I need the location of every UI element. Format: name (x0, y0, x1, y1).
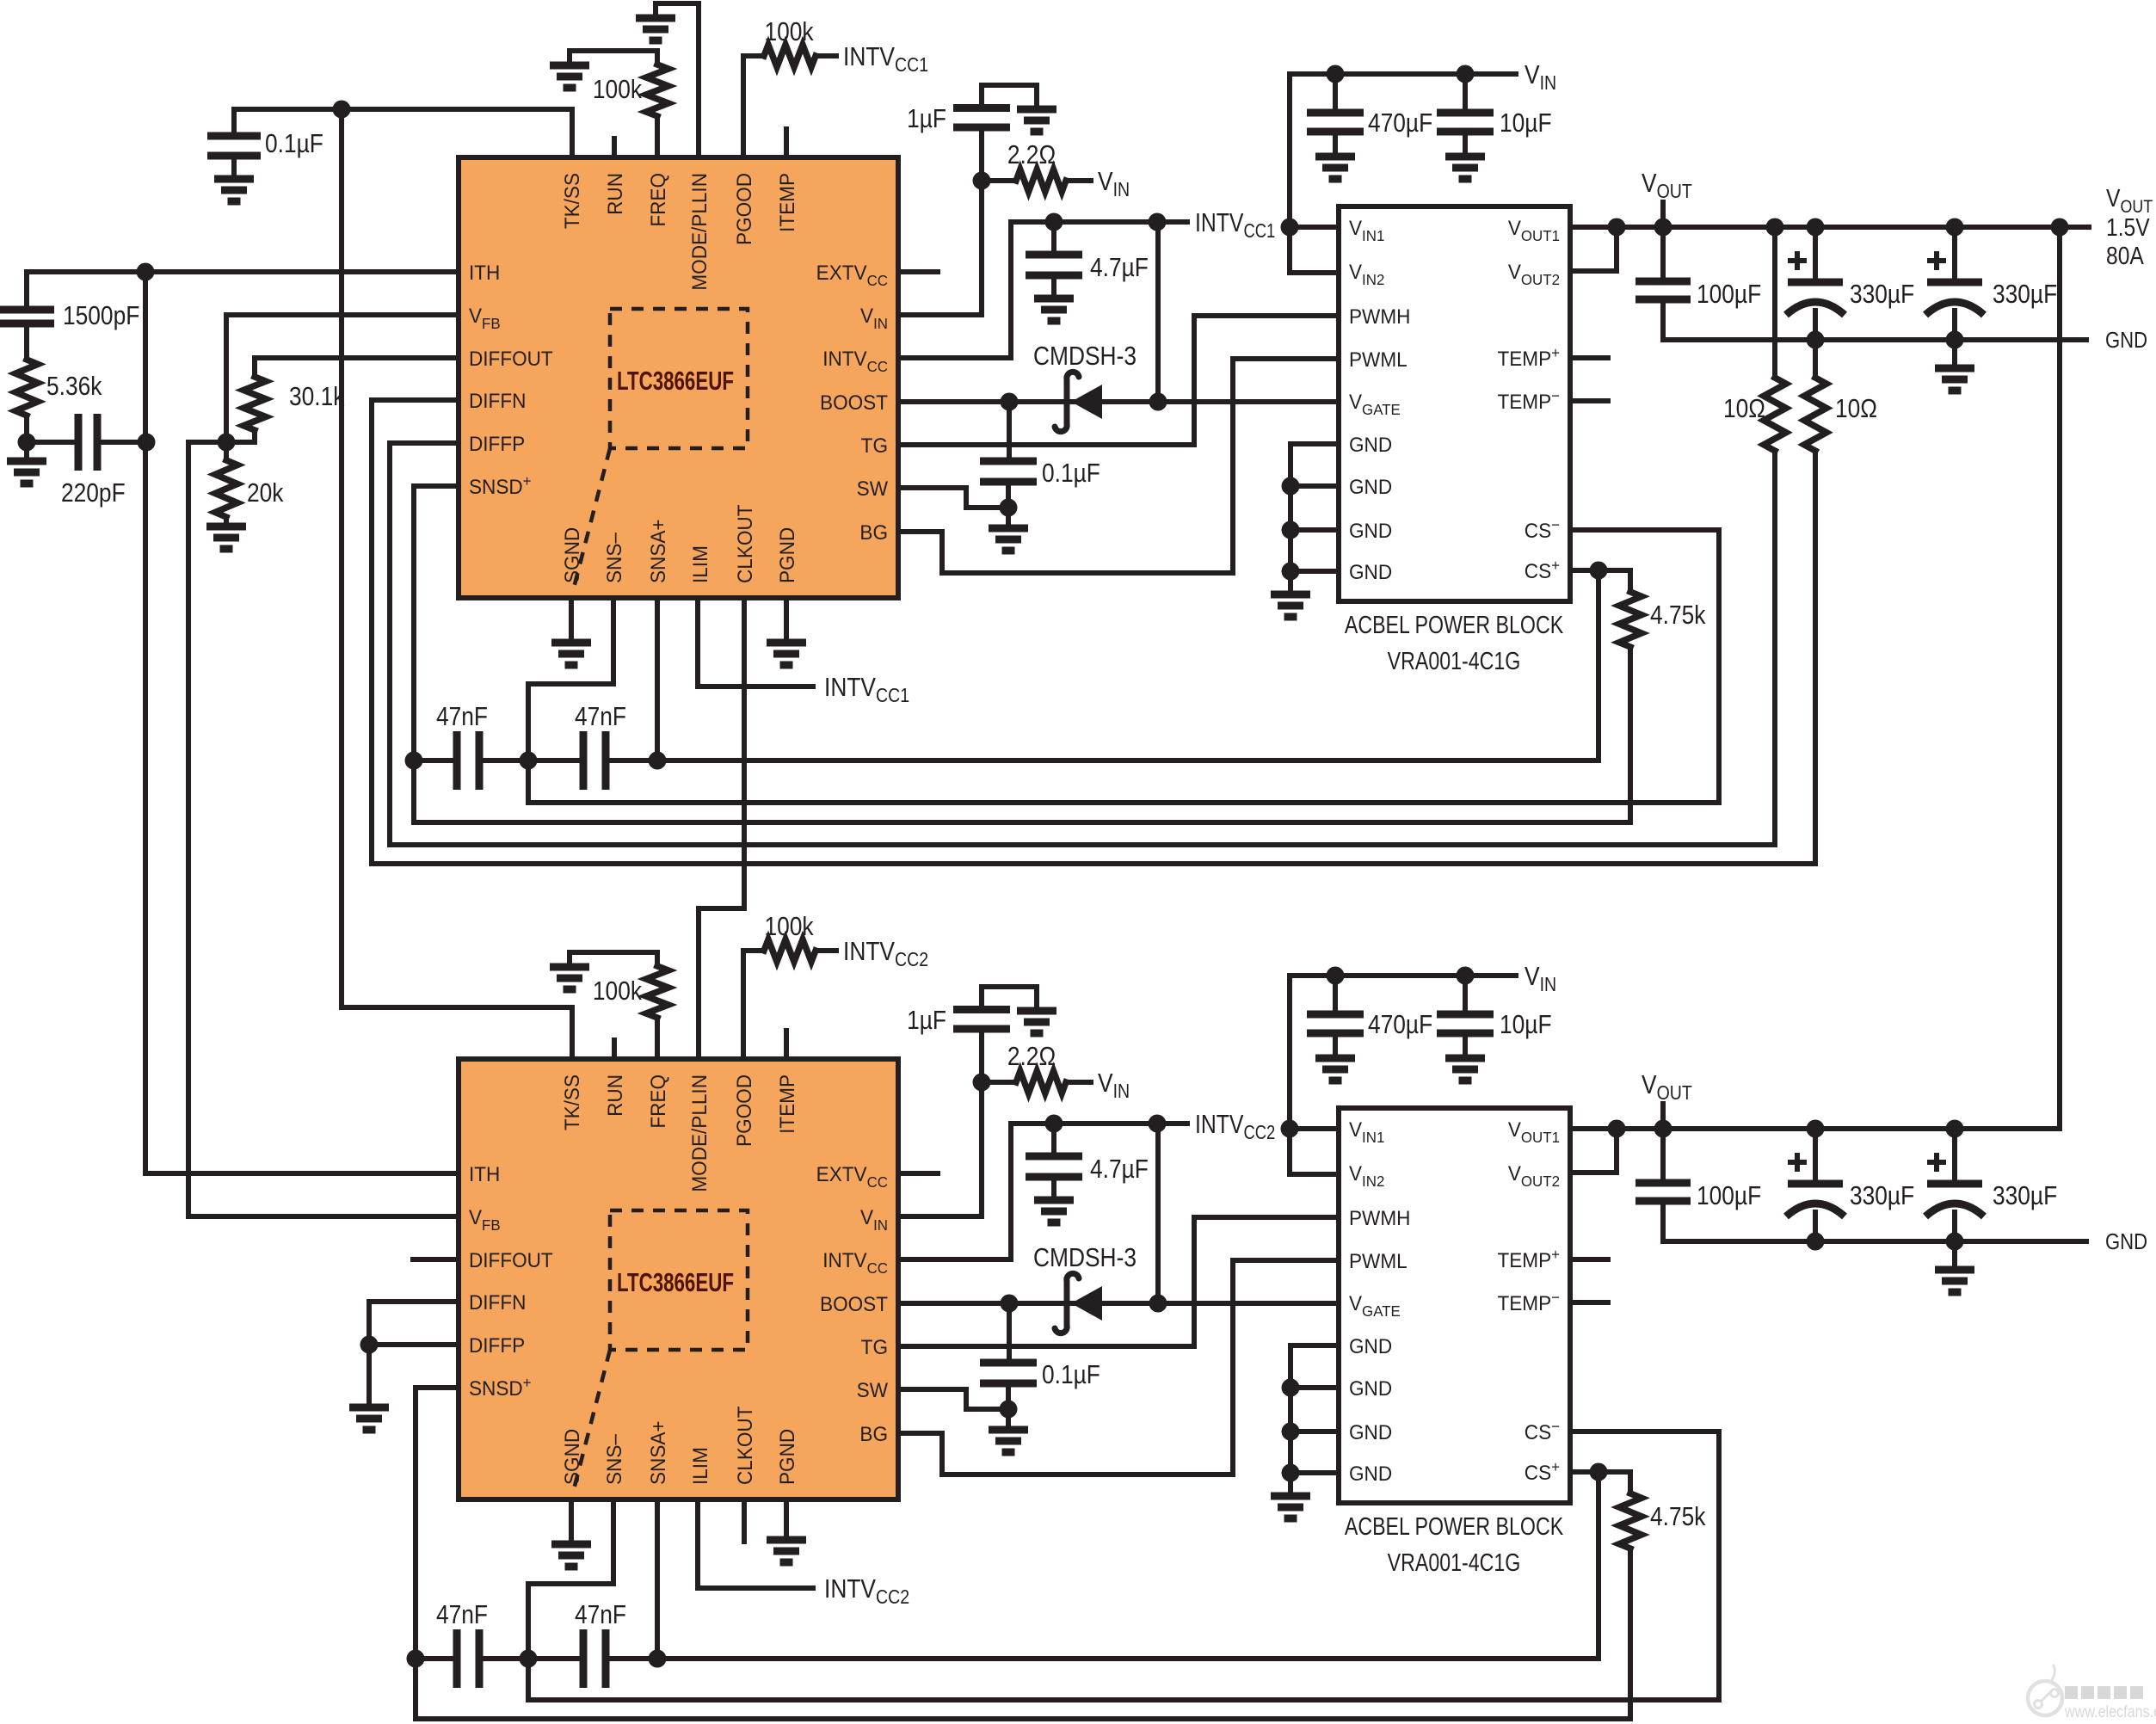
label C19 470uF (1368, 1010, 1432, 1039)
svg-text:SW: SW (857, 1378, 888, 1401)
wire R3 bottom (24, 416, 29, 442)
wire INTVCC2 pin net (898, 1124, 1187, 1259)
node 10uF junction 2 (1457, 967, 1475, 985)
node BOOST1 diode junction (1149, 393, 1167, 411)
capacitor C9 470uF lead (1333, 74, 1338, 113)
wire VFB1 (226, 312, 459, 317)
wire C23 to GND (1952, 1212, 1957, 1241)
ground PGND1 stub (784, 598, 789, 643)
wire C20 to ground (1463, 1033, 1468, 1058)
capacitor C12 330uF (1786, 251, 1845, 315)
wire TK/SS2 net (342, 1007, 572, 1059)
label INTVCC1 net at R1 (843, 42, 928, 76)
wire R3 to ground (24, 442, 29, 461)
label C16 1uF (907, 1006, 946, 1035)
wire INTVCC1 pin net (898, 222, 1187, 358)
resistor R5 20k (215, 460, 237, 517)
label C23 330uF (1993, 1181, 2057, 1210)
node 4.7uF junction (1045, 213, 1063, 231)
node 470uF junction 2 (1327, 967, 1345, 985)
wire TEMP+2 stub (1570, 1257, 1608, 1262)
svg-text:SNS–: SNS– (602, 533, 625, 583)
label C15 47nF (575, 1600, 626, 1629)
wire VIN2 block2 pin (1290, 1129, 1339, 1174)
capacitor C13 330uF lead (1952, 227, 1957, 282)
svg-text:220pF: 220pF (61, 478, 126, 508)
svg-text:CLKOUT: CLKOUT (733, 1407, 756, 1485)
svg-text:30.1k: 30.1k (289, 382, 345, 411)
wire VOUT stub (1660, 202, 1666, 227)
svg-text:GND: GND (1349, 560, 1392, 583)
capacitor C9 470uF (1307, 113, 1364, 132)
label INTVCC2 net at ILIM (824, 1574, 909, 1608)
resistor R4 30.1k (243, 377, 266, 430)
wire PB2 GND3 (1291, 1429, 1339, 1434)
label C9 470uF (1368, 108, 1432, 138)
capacitor C2 1500pF (0, 310, 54, 323)
wire ILIM2 to INTVCC2 (698, 1499, 813, 1588)
svg-text:DIFFOUT: DIFFOUT (469, 347, 553, 370)
wire PB1 GND4 (1291, 569, 1339, 574)
capacitor C16 1uF (953, 1010, 1010, 1030)
ground C9 (1315, 157, 1355, 179)
svg-text:1.5V: 1.5V (2106, 213, 2150, 241)
wire SNSD+2 (416, 1385, 459, 1390)
svg-text:ACBEL POWER BLOCK: ACBEL POWER BLOCK (1345, 610, 1564, 638)
node BOOST1 0.1uF junction (1001, 393, 1019, 411)
svg-text:BG: BG (859, 1422, 888, 1445)
wire TG1 to PWMH1 (898, 316, 1339, 445)
ground SGND1 stub (569, 598, 574, 643)
node BOOST2 diode junction (1149, 1295, 1167, 1313)
wire TK/SS1 net (234, 109, 572, 157)
label C7 4.7uF (1090, 253, 1149, 282)
label C12 330uF (1850, 280, 1914, 309)
label R4 30.1k (289, 382, 345, 411)
ground C8 (989, 528, 1028, 551)
wire DIFFOUT1 to R4 (252, 358, 257, 377)
capacitor C23 330uF (1925, 1153, 1984, 1216)
svg-text:MODE/PLLIN: MODE/PLLIN (687, 173, 711, 291)
label VIN net at R6 (1098, 167, 1130, 200)
wire ITH1 (27, 269, 459, 274)
ground PGND1 (767, 643, 806, 665)
svg-text:SNSD+: SNSD+ (469, 1374, 532, 1401)
ground R11 (550, 967, 589, 989)
capacitor C4 47nF wires (414, 758, 457, 763)
wire C19 to ground (1333, 1033, 1338, 1058)
wire C9 to ground (1333, 132, 1338, 157)
svg-text:RUN: RUN (603, 1074, 626, 1117)
wire GND rail 1 (1663, 337, 2086, 342)
wire C12 to GND (1813, 311, 1818, 340)
resistor R6 2.2ohm (1016, 169, 1066, 192)
wire C2 to R3 (24, 323, 29, 360)
capacitor C8 0.1uF lead (1007, 402, 1012, 461)
ground SGND1 (551, 643, 591, 665)
wire C23 gnd stub (1952, 1241, 1957, 1270)
resistor R9 4.75k (1619, 592, 1642, 647)
wire CS+2 (1570, 1469, 1630, 1475)
node VOUT feedback junction (2051, 219, 2069, 237)
diode D2 CMDSH-3 (1055, 1273, 1102, 1333)
svg-text:0.1µF: 0.1µF (1042, 459, 1100, 488)
resistor R1 100k PGOOD pull (764, 45, 816, 67)
node 330uF-D junction (1946, 1120, 1964, 1138)
wire BG2 to PWML2 (898, 1260, 1339, 1475)
node CS+1 junction (1590, 562, 1608, 580)
wire C7 to ground (1051, 275, 1056, 299)
wire TEMP-1 stub (1570, 398, 1608, 403)
svg-text:10Ω: 10Ω (1835, 394, 1877, 423)
wire VFB1 down (224, 315, 229, 442)
resistor R6 2.2ohm leads (982, 178, 1016, 183)
capacitor C14 47nF (457, 1629, 479, 1688)
node CS+2 junction (1590, 1463, 1608, 1481)
svg-text:TEMP+: TEMP+ (1497, 344, 1560, 371)
label VIN net at R12 (1098, 1068, 1130, 1102)
svg-text:LTC3866EUF: LTC3866EUF (617, 1267, 734, 1296)
svg-text:100k: 100k (593, 75, 643, 104)
wire TEMP-2 stub (1570, 1300, 1608, 1305)
capacitor C10 10uF (1437, 113, 1494, 132)
svg-text:330µF: 330µF (1850, 280, 1914, 309)
svg-text:PWML: PWML (1349, 1249, 1408, 1272)
label PB1 name (1345, 610, 1564, 638)
wire R1 to INTVCC1 (816, 53, 836, 58)
node C22 GND junction (1807, 1233, 1825, 1251)
capacitor C7 4.7uF lead (1051, 222, 1056, 255)
svg-text:TG: TG (861, 1335, 888, 1358)
svg-text:DIFFOUT: DIFFOUT (469, 1248, 553, 1271)
svg-text:2.2Ω: 2.2Ω (1007, 140, 1056, 169)
svg-text:LTC3866EUF: LTC3866EUF (617, 366, 734, 395)
node diode junction top (1149, 213, 1167, 231)
node TK/SS1-TKSS2 tie (333, 101, 351, 119)
node VOUT2-2 junction (1608, 1120, 1626, 1138)
svg-text:80A: 80A (2106, 242, 2144, 269)
wire VOUT1 rail (1570, 225, 2089, 230)
svg-text:4.75k: 4.75k (1650, 1502, 1706, 1531)
resistor R7 10ohm (1764, 378, 1786, 451)
wire CS+2 down to bus (1596, 1472, 1601, 1659)
label PB1 part (1388, 646, 1521, 674)
svg-text:TG: TG (861, 434, 888, 457)
svg-text:5.36k: 5.36k (46, 372, 102, 401)
svg-text:330µF: 330µF (1850, 1181, 1914, 1210)
wire C8 bottom (1006, 482, 1011, 508)
node VFB1 divider junction (218, 434, 236, 452)
node C13 GND junction (1946, 331, 1964, 349)
wire C11 to GND rail (1660, 299, 1666, 340)
svg-text:MODE/PLLIN: MODE/PLLIN (687, 1074, 711, 1192)
wire ILIM1 to INTVCC1 (698, 598, 813, 687)
ground C20 (1445, 1058, 1485, 1081)
svg-text:470µF: 470µF (1368, 108, 1432, 138)
svg-text:PGOOD: PGOOD (732, 173, 755, 245)
svg-text:TEMP−: TEMP− (1497, 1289, 1560, 1315)
power block PB1 ACBEL (1339, 206, 1570, 601)
node PB2 GND4 (1282, 1464, 1300, 1482)
node PB2 GND3 (1282, 1423, 1300, 1441)
wire R2 bottom to FREQ (655, 116, 660, 157)
label C6 1uF (907, 104, 946, 133)
wire C18 bottom (1006, 1383, 1011, 1409)
wire VIN1 block pin (1290, 225, 1339, 230)
resistor R13 4.75k (1619, 1493, 1642, 1549)
wire ITEMP2 stub (784, 1031, 789, 1059)
capacitor C3 220pF (78, 414, 97, 471)
label C20 10uF (1500, 1010, 1552, 1039)
svg-text:10µF: 10µF (1500, 108, 1552, 138)
IC U1 LTC3866EUF (459, 157, 898, 598)
wire VIN rail 1 (1290, 71, 1516, 77)
ground C18 (989, 1430, 1028, 1452)
label C1 0.1uF (265, 129, 323, 158)
wire SNS-1 bus (528, 760, 1719, 803)
wire PB2 GND4 (1291, 1470, 1339, 1475)
wire RUN1 stub (612, 139, 617, 157)
wire VIN1 block2 pin (1290, 1126, 1339, 1131)
capacitor C20 10uF (1437, 1014, 1494, 1033)
wire RUN2 stub (612, 1040, 617, 1059)
label VOUT net top (1642, 169, 1692, 202)
resistor R12 2.2ohm (1016, 1071, 1066, 1093)
wire DIFFP1 sense bus (390, 443, 1774, 845)
label R12 2.2ohm (1007, 1042, 1056, 1071)
wire MODE/PLLIN1 to top ground (656, 3, 699, 157)
node BOOST2 0.1uF junction (1001, 1295, 1019, 1313)
label C10 10uF (1500, 108, 1552, 138)
svg-text:CMDSH-3: CMDSH-3 (1033, 342, 1137, 371)
wire C21 to GND rail (1660, 1201, 1666, 1241)
wire DIFFN1 (372, 397, 459, 403)
wire PB1 GND2 (1291, 483, 1339, 489)
svg-text:PGND: PGND (775, 527, 798, 583)
wire C13 to GND (1952, 311, 1957, 340)
label C21 100uF (1697, 1181, 1761, 1210)
label D2 CMDSH-3 (1033, 1243, 1137, 1272)
resistor R5 20k lead (224, 442, 229, 460)
svg-text:SNSD+: SNSD+ (469, 472, 532, 499)
label C17 4.7uF (1090, 1154, 1149, 1184)
wire VFB2 (188, 1214, 459, 1219)
label R10 100k (764, 912, 814, 941)
node PB1 GND2 (1282, 477, 1300, 496)
svg-text:47nF: 47nF (575, 702, 626, 731)
svg-text:GND: GND (1349, 433, 1392, 456)
wire R5 to ground (224, 517, 229, 526)
label C14 47nF (436, 1600, 488, 1629)
wire ITH1 long line to ITH2 (143, 272, 148, 1173)
svg-text:DIFFN: DIFFN (469, 389, 526, 412)
svg-text:FREQ: FREQ (646, 173, 669, 227)
node VIN2 RC node (973, 1074, 991, 1092)
label R11 100k (593, 976, 643, 1006)
svg-text:4.7µF: 4.7µF (1090, 1154, 1149, 1184)
wire DIFFN2 down (367, 1302, 372, 1345)
ground DIFFP2 (349, 1407, 389, 1430)
wire PB2 GND bus (1291, 1345, 1339, 1496)
wire SW1 jog (898, 488, 1008, 508)
wire DIFFN2 (369, 1299, 459, 1304)
ground MODE/PLLIN1 (636, 18, 675, 40)
wire PB1 GND bus (1291, 444, 1339, 594)
svg-text:0.1µF: 0.1µF (265, 129, 323, 158)
wire VIN1 pin (898, 181, 982, 315)
capacitor C4 47nF (457, 731, 479, 790)
wire BG1 to PWML1 (898, 359, 1339, 573)
wire SNSD+2 down (413, 1388, 418, 1659)
label C5 47nF (575, 702, 626, 731)
svg-text:FREQ: FREQ (646, 1074, 669, 1129)
capacitor C7 4.7uF (1026, 255, 1082, 275)
node C23 GND junction (1946, 1233, 1964, 1251)
svg-text:RUN: RUN (603, 173, 626, 215)
wire DIFFP2 (369, 1342, 459, 1347)
wire R9 to bus (1628, 647, 1633, 822)
svg-text:DIFFP: DIFFP (469, 432, 525, 455)
svg-text:VRA001-4C1G: VRA001-4C1G (1388, 1548, 1521, 1576)
node C3 right junction (138, 434, 156, 452)
wire PB2 GND2 (1291, 1385, 1339, 1390)
node DIFFP2 junction (360, 1336, 379, 1354)
ground C6 (1017, 109, 1056, 132)
node VIN1 RC node (973, 172, 991, 190)
ground SGND2 stub (569, 1499, 574, 1544)
label C11 100uF (1697, 280, 1761, 309)
wire R10 to INTVCC2 (816, 948, 836, 953)
wire SNSD+1 (414, 483, 459, 489)
wire VOUT rail 2 (1570, 1126, 2060, 1131)
capacitor C10 10uF lead (1463, 74, 1468, 113)
capacitor C11 100uF (1635, 281, 1691, 299)
capacitor C13 330uF (1925, 251, 1984, 315)
svg-text:ITH: ITH (469, 261, 500, 284)
node 4.7uF junction 2 (1045, 1115, 1063, 1133)
wire 10ohm-A top (1772, 227, 1777, 378)
ground C16 (1017, 1011, 1056, 1033)
svg-text:TK/SS: TK/SS (560, 173, 583, 229)
node SW2 junction (1000, 1401, 1018, 1419)
capacitor C22 330uF (1786, 1153, 1845, 1216)
wire SNSA+2 down (655, 1499, 660, 1659)
ground C10 (1445, 157, 1485, 179)
node SNSA+1 cap node (649, 752, 667, 770)
svg-text:SW: SW (857, 477, 888, 500)
svg-text:SNSA+: SNSA+ (646, 519, 669, 583)
label INTVCC1 net main (1195, 207, 1275, 242)
wire C22 to GND (1813, 1212, 1818, 1241)
label R6 2.2ohm (1007, 140, 1056, 169)
wire C8 to ground (1006, 508, 1011, 528)
svg-text:CLKOUT: CLKOUT (733, 505, 756, 583)
node PB2 GND2 (1282, 1379, 1300, 1397)
svg-text:TEMP−: TEMP− (1497, 387, 1560, 414)
wire BOOST1 to VGATE1 (898, 399, 1339, 404)
node VOUT stub junction (1654, 219, 1672, 237)
node INTVCC1-VIN1 junction (1281, 219, 1299, 237)
wire R2 top to ground (570, 51, 657, 65)
capacitor C22 330uF lead (1813, 1129, 1818, 1184)
label R9 4.75k (1650, 600, 1706, 630)
svg-text:PWMH: PWMH (1349, 305, 1410, 328)
svg-text:47nF: 47nF (575, 1600, 626, 1629)
svg-text:2.2Ω: 2.2Ω (1007, 1042, 1056, 1071)
svg-text:SGND: SGND (560, 1429, 583, 1485)
svg-text:47nF: 47nF (436, 702, 488, 731)
svg-text:100k: 100k (764, 912, 814, 941)
svg-text:PWML: PWML (1349, 348, 1408, 371)
svg-text:CMDSH-3: CMDSH-3 (1033, 1243, 1137, 1272)
svg-text:GND: GND (1349, 1462, 1392, 1485)
wire R4 bottom (226, 430, 255, 442)
label VIN rail net 2 (1525, 962, 1556, 995)
wire C13 gnd stub (1952, 340, 1957, 368)
svg-text:TEMP+: TEMP+ (1497, 1246, 1560, 1272)
svg-text:4.7µF: 4.7µF (1090, 253, 1149, 282)
svg-text:10Ω: 10Ω (1723, 394, 1765, 423)
label C4 47nF (436, 702, 488, 731)
wire SNSA+2 bus (657, 1656, 1599, 1661)
svg-text:ILIM: ILIM (688, 545, 711, 583)
wire VFB node to long line (188, 442, 226, 1216)
capacitor C8 0.1uF (980, 461, 1037, 482)
ground PGND2 (767, 1540, 806, 1562)
wire VIN2 pin (898, 1082, 982, 1216)
svg-text:SNSA+: SNSA+ (646, 1420, 669, 1485)
label C13 330uF (1993, 280, 2057, 309)
ground C13 (1935, 368, 1974, 391)
svg-text:GND: GND (1349, 1376, 1392, 1400)
ground SGND2 (551, 1544, 591, 1567)
node VOUT2 junction (1608, 219, 1626, 237)
wire SNSD+1 bus (414, 760, 1630, 822)
wire SNSA+1 down (655, 598, 660, 760)
capacitor C20 10uF lead (1463, 976, 1468, 1014)
wire DIFFP2 to ground (367, 1345, 372, 1407)
wire C10 to ground (1463, 132, 1468, 157)
diode D1 CMDSH-3 (1055, 372, 1102, 431)
svg-text:VRA001-4C1G: VRA001-4C1G (1388, 646, 1521, 674)
svg-text:100k: 100k (764, 17, 814, 46)
IC U2 LTC3866EUF (459, 1059, 898, 1499)
resistor R12 2.2ohm leads (982, 1080, 1016, 1085)
wire D2 to INTVCC2 (1155, 1124, 1161, 1303)
label VIN rail net (1525, 60, 1556, 94)
label C2 1500pF (63, 301, 139, 330)
wire C16 top to ground (982, 987, 1037, 1011)
node 330uF-B junction (1946, 219, 1964, 237)
node GND rail R8 junction (1807, 331, 1825, 349)
wire TG2 to PWMH2 (898, 1217, 1339, 1346)
svg-text:BOOST: BOOST (820, 1292, 888, 1315)
wire SNS-2 bus (528, 1659, 1719, 1700)
node 10ohm-A top junction (1766, 219, 1784, 237)
capacitor C14 47nF wires (416, 1656, 457, 1661)
wire DIFFOUT2 stub (413, 1257, 459, 1262)
ground C19 (1315, 1058, 1355, 1081)
svg-text:100µF: 100µF (1697, 1181, 1761, 1210)
svg-text:10µF: 10µF (1500, 1010, 1552, 1039)
ground PGND2 stub (784, 1499, 789, 1540)
wire SNSA+1 bus (657, 758, 1599, 763)
label R3 5.36k (46, 372, 102, 401)
svg-text:4.75k: 4.75k (1650, 600, 1706, 630)
svg-text:100k: 100k (593, 976, 643, 1006)
capacitor C1 0.1uF lead (231, 109, 237, 136)
capacitor C5 47nF (583, 731, 606, 790)
